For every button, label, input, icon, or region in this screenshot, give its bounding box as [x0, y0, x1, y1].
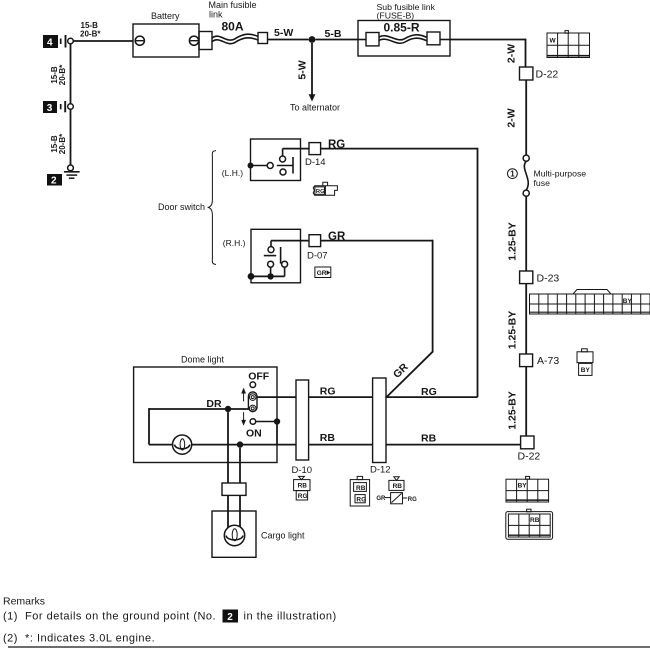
wire RB lamp to D-22	[191, 444, 520, 446]
door switch brace	[158, 151, 216, 265]
remarks heading	[3, 596, 45, 608]
bottom rule	[8, 646, 650, 648]
cargo light box	[212, 511, 305, 557]
wire RG dome to corner	[257, 396, 478, 398]
remark 2	[3, 633, 155, 645]
svg-text:RB: RB	[421, 432, 437, 444]
sub fusible link 0.85-R element	[358, 21, 450, 46]
connector grid BY bottom right	[506, 476, 549, 502]
svg-text:RB: RB	[356, 485, 366, 492]
svg-text:ON: ON	[246, 428, 262, 440]
svg-text:D-12: D-12	[370, 464, 391, 475]
svg-text:2: 2	[51, 176, 57, 187]
svg-text:Main fusible: Main fusible	[209, 0, 257, 10]
wire RH switch to D-07	[271, 240, 309, 242]
svg-text:(L.H.): (L.H.)	[222, 168, 243, 178]
svg-text:2-W: 2-W	[506, 44, 518, 63]
svg-text:Door switch: Door switch	[158, 202, 205, 212]
dome light switch ON position	[246, 419, 262, 440]
svg-text:20-B*: 20-B*	[58, 133, 67, 154]
wire 5-W	[268, 27, 309, 39]
svg-text:2: 2	[227, 612, 233, 623]
wires connector to cargo lamp	[228, 495, 240, 527]
svg-text:RB: RB	[298, 483, 308, 490]
svg-text:RG: RG	[316, 189, 325, 195]
svg-text:Dome light: Dome light	[181, 354, 225, 364]
svg-text:5-W: 5-W	[274, 27, 293, 39]
svg-text:W: W	[550, 38, 557, 45]
connector D-22 bottom	[518, 436, 541, 463]
wire 1.25-BY to D-23	[507, 196, 527, 271]
door switch LH contacts	[248, 156, 294, 175]
connector icon RG below D-14	[313, 182, 337, 195]
wire 5-B	[315, 28, 358, 40]
ground point 3 label box	[43, 101, 57, 114]
svg-text:RG: RG	[421, 386, 437, 398]
svg-text:OFF: OFF	[248, 371, 270, 383]
connector D-22 top	[520, 67, 559, 80]
connector icon RB with GR/RG splice below D-12	[376, 477, 417, 504]
svg-text:RG: RG	[320, 386, 336, 398]
wire ground4 down to ground3, 15-B/20-B*	[50, 44, 71, 104]
svg-text:link: link	[209, 10, 223, 20]
wire 1.25-BY to D-22 bottom	[507, 367, 527, 436]
svg-text:RB: RB	[530, 517, 540, 524]
wire ON contact to box edge	[256, 418, 280, 444]
dome light switch slider	[248, 392, 257, 412]
svg-text:2-W: 2-W	[506, 108, 518, 127]
svg-text:A-73: A-73	[537, 355, 559, 367]
wire RG from D-14 to right corner	[321, 139, 478, 397]
connector icon BY at A-73	[577, 349, 593, 376]
connector grid BY long	[530, 290, 650, 315]
cargo light inline connector	[222, 483, 246, 495]
svg-text:D-10: D-10	[292, 465, 313, 476]
door switch RH contacts	[248, 241, 288, 280]
door switch RH box	[251, 229, 301, 282]
svg-text:GR: GR	[317, 270, 327, 277]
ground symbol at point 4	[61, 35, 74, 48]
svg-text:D-14: D-14	[305, 157, 326, 168]
svg-text:DR: DR	[206, 398, 222, 410]
svg-text:D-22: D-22	[536, 68, 559, 80]
svg-text:0.85-R: 0.85-R	[384, 21, 420, 35]
connector icon GR below D-07	[315, 267, 331, 278]
connector grid RB bottom right	[506, 509, 553, 539]
label R.H.	[223, 238, 246, 248]
switch down arrow	[241, 412, 246, 426]
label RB left of D-12	[320, 432, 336, 444]
svg-text:5-B: 5-B	[325, 28, 342, 40]
dome lamp	[173, 435, 192, 454]
label L.H.	[222, 168, 243, 178]
svg-text:20-B*: 20-B*	[58, 64, 67, 85]
svg-text:GR: GR	[391, 361, 411, 381]
label RB right of D-12	[421, 432, 437, 444]
remark 1	[3, 610, 337, 624]
svg-text:80A: 80A	[222, 20, 244, 34]
switch up arrow	[241, 388, 246, 402]
svg-text:BY: BY	[623, 298, 633, 305]
svg-text:RB: RB	[393, 483, 403, 490]
wire sub fusible link to corner	[450, 39, 526, 67]
svg-text:Battery: Battery	[151, 11, 180, 21]
svg-text:D-07: D-07	[307, 251, 328, 262]
svg-text:BY: BY	[581, 367, 591, 374]
wire DR from switch to lamp loop	[149, 398, 248, 445]
connector icon RB/RG below D-10	[294, 476, 310, 500]
battery negative terminal right	[189, 36, 198, 45]
wire ground3 down to ground2, 15-B/20-B*	[50, 109, 71, 165]
label RG left of D-12	[320, 386, 336, 398]
label RG right of D-12	[421, 386, 437, 398]
svg-text:1.25-BY: 1.25-BY	[507, 311, 519, 350]
ground symbol at point 3	[61, 101, 74, 112]
svg-text:RG: RG	[356, 496, 366, 503]
connector grid W top right	[547, 31, 590, 58]
door switch LH box	[251, 139, 301, 181]
node RB junction at lamp	[237, 441, 243, 447]
battery negative terminal left	[135, 36, 144, 45]
wire label 2-W upper	[506, 44, 518, 63]
connector D-07	[307, 235, 328, 262]
svg-text:5-W: 5-W	[297, 60, 309, 79]
svg-text:in the illustration): in the illustration)	[244, 611, 337, 623]
connector band D-12	[370, 378, 391, 475]
multi-purpose fuse 1	[508, 155, 587, 196]
wire ground4 to battery, 15-B/20-B*	[73, 21, 133, 41]
battery output connector tab	[199, 32, 212, 50]
wire 2-W to fuse	[506, 80, 527, 155]
svg-text:1.25-BY: 1.25-BY	[507, 391, 519, 430]
svg-text:fuse: fuse	[534, 178, 551, 188]
svg-text:(R.H.): (R.H.)	[223, 238, 246, 248]
svg-text:1.25-BY: 1.25-BY	[507, 222, 519, 261]
connector A-73	[520, 354, 560, 367]
label GR diagonal	[391, 361, 411, 381]
sub fusible link box FUSE-B	[358, 2, 450, 56]
cargo lamp	[224, 525, 244, 545]
svg-text:Remarks: Remarks	[3, 596, 45, 608]
ground point 4 label box	[43, 35, 58, 49]
svg-text:(1) For details on the ground: (1) For details on the ground point (No.	[3, 611, 216, 623]
svg-text:D-22: D-22	[518, 451, 541, 463]
node junction to alternator	[309, 36, 316, 43]
battery	[133, 11, 199, 57]
svg-text:BY: BY	[518, 483, 528, 490]
dome light switch OFF position	[248, 371, 270, 388]
wire 1.25-BY to A-73	[507, 284, 527, 354]
svg-text:Cargo light: Cargo light	[261, 530, 305, 540]
main fusible link 80A	[209, 0, 268, 44]
connector D-23	[520, 271, 560, 284]
dome light box	[134, 354, 277, 462]
wire dome to cargo light right	[239, 448, 241, 483]
svg-text:3: 3	[47, 103, 53, 114]
svg-text:(FUSE-B): (FUSE-B)	[377, 10, 415, 20]
wire dome to cargo light left	[227, 412, 229, 483]
svg-text:RG: RG	[408, 497, 417, 503]
connector band D-10	[292, 380, 313, 476]
svg-text:To alternator: To alternator	[290, 103, 340, 113]
earth ground symbol at point 2	[64, 165, 80, 178]
svg-text:(2) *: Indicates 3.0L engine.: (2) *: Indicates 3.0L engine.	[3, 633, 155, 645]
svg-text:D-23: D-23	[537, 272, 560, 284]
svg-text:RB: RB	[320, 432, 336, 444]
svg-text:20-B*: 20-B*	[80, 29, 101, 38]
connector D-14	[305, 143, 326, 168]
svg-text:GR: GR	[376, 496, 386, 502]
ground point 2 label box	[47, 174, 62, 187]
connector icon RB/RG below D-12	[350, 476, 369, 506]
wire GR from D-07 to corner and diagonal	[321, 231, 434, 398]
wire 5-W down to alternator	[290, 43, 340, 113]
svg-text:1: 1	[510, 170, 515, 179]
wire LH switch to D-14	[283, 149, 309, 156]
svg-text:4: 4	[47, 38, 53, 49]
svg-text:RG: RG	[298, 493, 308, 500]
